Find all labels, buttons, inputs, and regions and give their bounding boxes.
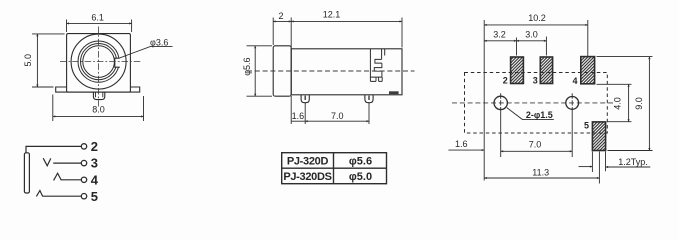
dimension 7.0 (side) [305,103,369,124]
dimension 3.2 [484,38,516,56]
barrel [273,46,291,96]
pin 2 wire [26,146,81,152]
ring r20.6 [78,41,119,82]
label phi3.6 leader [120,46,173,57]
svg-text:2: 2 [503,76,508,86]
svg-text:5: 5 [584,121,589,131]
dimension 10.2 [484,20,588,181]
svg-text:3.2: 3.2 [493,29,506,39]
centerline middle view [247,70,415,72]
pin 3 contact [43,158,51,166]
svg-text:PJ-320DS: PJ-320DS [283,171,331,183]
hole 1 [494,96,507,109]
svg-text:φ5.0: φ5.0 [349,171,372,183]
svg-text:5: 5 [91,189,98,204]
contact nub [115,58,120,67]
svg-text:7.0: 7.0 [331,111,344,121]
dimension 3.0 [517,37,547,56]
centerline through holes [452,102,615,104]
pin 2 terminal [81,144,86,149]
body front outline [67,34,131,93]
dimension 1.6 (side) [291,96,305,124]
pin 3 terminal [81,160,86,165]
dimension phi5.6 [247,46,273,96]
pin 2 side [365,95,373,103]
svg-text:9.0: 9.0 [634,97,644,110]
svg-text:11.3: 11.3 [532,167,549,177]
dimension 1.6 (pcb) [448,149,484,151]
svg-text:1.6: 1.6 [455,139,468,149]
dimension 7.0 (pcb) [501,150,573,152]
svg-text:4: 4 [572,76,577,86]
ring r18.1 [81,44,117,80]
pin 4 contact [54,173,62,180]
centerline horizontal [60,61,141,63]
spring contact detail [370,49,384,82]
svg-text:1.2Typ.: 1.2Typ. [618,157,648,167]
label 2-phi1.5 leader [507,108,554,120]
pad 3 [540,57,552,84]
svg-text:φ5.6: φ5.6 [242,57,252,75]
svg-text:3.0: 3.0 [525,29,538,39]
svg-text:PJ-320D: PJ-320D [287,155,329,167]
dimension 5.0 [32,34,65,87]
svg-text:φ3.6: φ3.6 [150,37,168,47]
svg-text:7.0: 7.0 [529,140,542,150]
pin 5 contact [36,191,42,197]
svg-text:5.0: 5.0 [23,54,33,67]
pad 2 [511,57,524,84]
dimension 11.3 [484,152,599,184]
dimension 6.1 [67,20,132,33]
svg-text:3: 3 [533,76,538,86]
svg-text:4: 4 [91,172,99,187]
pad 5 [592,122,605,151]
svg-text:1.6: 1.6 [292,111,305,121]
centerline vertical [98,27,100,107]
pin 4 wire [61,179,81,181]
dimension 12.1 [291,18,402,48]
bottom tab [93,92,104,100]
dimension 2 (barrel) [273,18,291,48]
bottom tab inner [96,92,103,97]
dimension 9.0 [597,57,653,151]
inner hole circle [83,46,115,78]
pin 5 terminal [81,194,86,199]
sleeve bar [24,153,29,193]
pin 5 wire [43,195,81,197]
pin 1 side [301,95,309,103]
svg-text:2: 2 [278,11,283,21]
svg-text:2: 2 [91,139,98,154]
svg-text:6.1: 6.1 [91,13,104,23]
dimension 1.2Typ [579,152,651,173]
dimension 8.0 [53,95,144,122]
pin 4 terminal [81,177,86,182]
svg-text:3: 3 [91,156,98,171]
svg-text:8.0: 8.0 [92,105,105,115]
svg-text:φ5.6: φ5.6 [349,155,372,167]
hole 2 [566,97,579,110]
svg-text:12.1: 12.1 [323,9,341,19]
body side outline [291,49,402,95]
solder strip [389,91,399,94]
svg-text:2-φ1.5: 2-φ1.5 [526,110,553,120]
mounting flanges and bottom edge [56,87,140,92]
dimension 4.0 [597,84,632,121]
svg-text:4.0: 4.0 [612,97,622,110]
component outline dashed [465,73,608,134]
outer circle [71,34,126,89]
svg-text:10.2: 10.2 [528,13,546,23]
pad 4 [581,57,595,84]
pin 3 wire [53,162,81,164]
